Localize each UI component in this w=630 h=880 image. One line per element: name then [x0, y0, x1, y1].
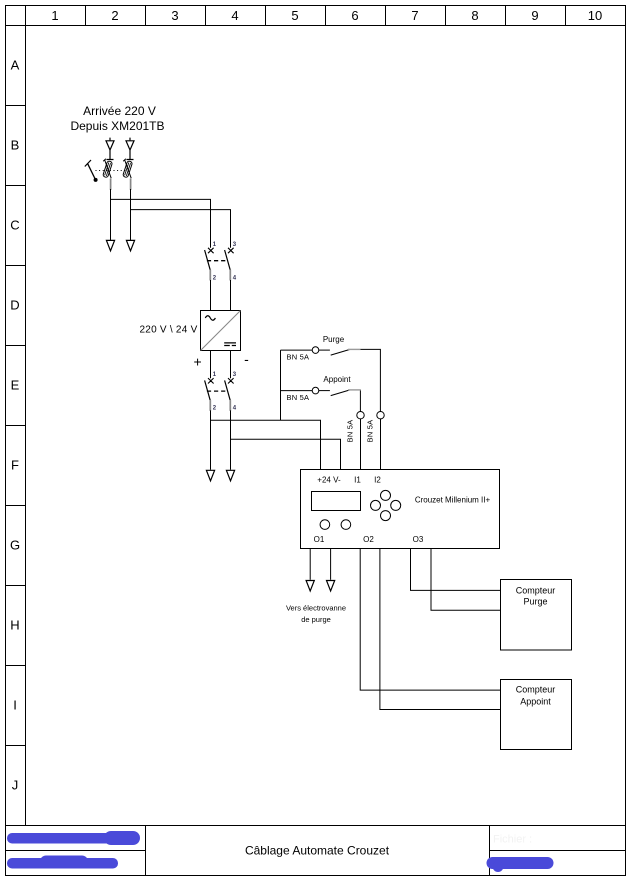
svg-text:Arrivée 220 V: Arrivée 220 V [83, 104, 156, 118]
svg-text:5: 5 [291, 8, 298, 23]
svg-text:Fichier :: Fichier : [493, 834, 532, 846]
svg-text:O3: O3 [413, 535, 424, 544]
svg-text:Compteur: Compteur [516, 685, 556, 695]
svg-text:BN 5A: BN 5A [366, 420, 375, 443]
svg-text:G: G [10, 538, 20, 553]
svg-text:Câblage Automate Crouzet: Câblage Automate Crouzet [245, 844, 390, 858]
svg-text:6: 6 [351, 8, 358, 23]
svg-text:Crouzet Millenium II+: Crouzet Millenium II+ [415, 496, 491, 505]
svg-text:7: 7 [411, 8, 418, 23]
svg-text:Appoint: Appoint [520, 697, 551, 707]
svg-text:C: C [10, 218, 19, 233]
svg-text:D: D [10, 298, 19, 313]
svg-text:Vers électrovanne: Vers électrovanne [286, 604, 346, 613]
svg-text:A: A [11, 58, 20, 73]
svg-text:4: 4 [231, 8, 238, 23]
svg-text:9: 9 [531, 8, 538, 23]
svg-text:+: + [194, 354, 202, 370]
svg-text:I1: I1 [354, 475, 361, 484]
svg-text:Purge: Purge [323, 335, 345, 344]
svg-text:BN 5A: BN 5A [346, 420, 355, 443]
svg-text:H: H [10, 618, 19, 633]
svg-text:BN 5A: BN 5A [287, 353, 310, 362]
svg-text:B: B [11, 138, 20, 153]
svg-text:220 V \ 24 V: 220 V \ 24 V [139, 325, 197, 336]
svg-text:+24 V-: +24 V- [317, 475, 341, 484]
svg-text:10: 10 [588, 8, 602, 23]
svg-text:2: 2 [111, 8, 118, 23]
svg-text:O1: O1 [314, 535, 325, 544]
svg-text:8: 8 [471, 8, 478, 23]
svg-text:BN 5A: BN 5A [287, 393, 310, 402]
svg-text:F: F [11, 458, 19, 473]
svg-text:I2: I2 [374, 475, 381, 484]
svg-text:3: 3 [171, 8, 178, 23]
svg-text:-: - [244, 351, 249, 367]
svg-text:Compteur: Compteur [516, 586, 556, 596]
svg-text:O2: O2 [363, 535, 374, 544]
svg-text:Appoint: Appoint [323, 375, 351, 384]
svg-text:E: E [11, 378, 20, 393]
svg-text:Depuis XM201TB: Depuis XM201TB [70, 119, 164, 133]
svg-text:J: J [12, 778, 19, 793]
svg-text:I: I [13, 698, 17, 713]
svg-text:1: 1 [51, 8, 58, 23]
svg-text:Purge: Purge [523, 597, 547, 607]
svg-text:de purge: de purge [301, 615, 331, 624]
